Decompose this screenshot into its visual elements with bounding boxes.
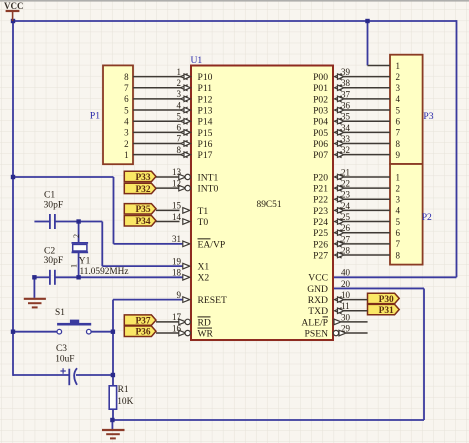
U1 pin 3 P12 [177, 89, 213, 105]
wire GND right vertical [423, 288, 425, 420]
wire P07 to P3 pin 9 [344, 154, 390, 156]
svg-text:11: 11 [341, 301, 350, 311]
junction S1 right on RESET net [111, 330, 115, 334]
svg-text:P06: P06 [313, 139, 328, 150]
svg-text:P01: P01 [313, 83, 328, 94]
svg-text:3: 3 [396, 83, 401, 93]
svg-text:2: 2 [124, 139, 129, 149]
svg-text:P16: P16 [198, 139, 213, 150]
wire crystal pin2 lead [78, 222, 80, 243]
svg-text:S1: S1 [55, 308, 65, 318]
wire P3 pin1 stub [368, 64, 391, 66]
wire S1 right [91, 331, 113, 333]
svg-text:ALE/P: ALE/P [301, 317, 328, 328]
svg-text:9: 9 [396, 150, 401, 160]
svg-text:37: 37 [341, 89, 351, 99]
svg-text:36: 36 [341, 100, 351, 110]
port P35 [124, 204, 156, 216]
wire C3 right [76, 374, 113, 376]
svg-text:P05: P05 [313, 128, 328, 139]
svg-text:P14: P14 [198, 117, 213, 128]
svg-text:PSEN: PSEN [305, 328, 329, 339]
wire P00 to P3 pin 2 [344, 76, 390, 78]
wire P23 to P2 pin 4 [344, 209, 390, 211]
svg-text:19: 19 [172, 256, 182, 266]
svg-text:P20: P20 [313, 172, 328, 183]
U1 pin 24 P23 [313, 201, 350, 217]
U1 pin 15 T1 [172, 201, 208, 217]
svg-text:32: 32 [341, 145, 350, 155]
wire P32 to INT0 [156, 187, 180, 189]
junction S1 left on VCC rail [11, 330, 15, 334]
svg-text:P13: P13 [198, 105, 213, 116]
svg-text:VCC: VCC [4, 1, 24, 11]
wire C1 to X1 net [55, 221, 102, 223]
svg-text:20: 20 [341, 279, 351, 289]
wire P03 to P3 pin 5 [344, 109, 390, 111]
svg-text:23: 23 [341, 190, 351, 200]
svg-text:P00: P00 [313, 72, 328, 83]
svg-text:P23: P23 [313, 206, 328, 217]
op U1 89C51 body [191, 66, 333, 341]
U1 pin 6 P15 [177, 123, 213, 139]
svg-text:1: 1 [69, 264, 78, 268]
svg-text:1: 1 [177, 67, 182, 77]
svg-text:8: 8 [396, 139, 401, 149]
wire to EA/VP pin 31 [114, 243, 184, 245]
svg-text:C3: C3 [56, 344, 67, 354]
svg-text:39: 39 [341, 67, 351, 77]
U1 pin 35 P04 [313, 112, 350, 128]
svg-text:28: 28 [341, 245, 351, 255]
svg-text:31: 31 [172, 234, 181, 244]
U1 pin 2 P11 [177, 78, 213, 94]
svg-text:12: 12 [172, 178, 181, 188]
U1 pin 19 X1 [172, 256, 209, 272]
U1 pin 21 P20 [313, 167, 350, 183]
wire P22 to P2 pin 3 [344, 198, 390, 200]
svg-text:P36: P36 [135, 328, 150, 338]
U1 pin 34 P05 [313, 123, 350, 139]
U1 pin 28 P27 [313, 245, 350, 261]
svg-text:21: 21 [341, 167, 350, 177]
wire GND bottom [112, 419, 424, 421]
svg-text:29: 29 [341, 323, 351, 333]
svg-text:P35: P35 [135, 205, 150, 215]
U1 pin 22 P21 [313, 179, 350, 195]
U1 pin 37 P02 [313, 89, 350, 105]
U1 pin 5 P14 [177, 111, 213, 127]
svg-text:2: 2 [396, 72, 401, 82]
svg-text:2: 2 [72, 234, 81, 238]
svg-text:6: 6 [396, 228, 401, 238]
svg-text:24: 24 [341, 201, 351, 211]
U1 pin 31 EA/VP [172, 234, 225, 250]
wire PSEN dangling [346, 332, 368, 334]
junction C2 to ground [32, 275, 36, 279]
wire P37 to RD [156, 321, 180, 323]
svg-text:RESET: RESET [198, 295, 227, 306]
svg-text:P37: P37 [135, 317, 150, 327]
ground symbol (bottom GND net) [102, 430, 125, 438]
svg-text:26: 26 [341, 223, 351, 233]
wire EA vertical [113, 177, 115, 244]
wire P02 to P3 pin 4 [344, 98, 390, 100]
svg-text:U1: U1 [191, 55, 203, 66]
top window edge strip [0, 0, 469, 2]
resistor R1 10K [109, 385, 133, 409]
ground symbol (C1/C2) [24, 299, 46, 308]
U1 pin 10 RXD [308, 290, 351, 306]
U1 pin 11 TXD [308, 301, 349, 317]
svg-text:4: 4 [396, 94, 401, 104]
wire ground drop C1 C2 [33, 277, 35, 298]
U1 pin 16 WR [172, 323, 214, 339]
wire P24 to P2 pin 5 [344, 221, 390, 223]
wire P27 to P2 pin 8 [344, 254, 390, 256]
svg-text:30pF: 30pF [44, 200, 64, 211]
switch S1 [55, 308, 91, 334]
svg-text:11.0592MHz: 11.0592MHz [80, 267, 129, 277]
U1 pin 40 VCC [308, 268, 350, 284]
port P34 [124, 216, 156, 228]
power port VCC [4, 1, 24, 21]
svg-text:P27: P27 [313, 250, 328, 261]
svg-text:27: 27 [341, 234, 351, 244]
junction C2 / Y1 pin1 / X2 node [76, 275, 80, 279]
wire P04 to P3 pin 6 [344, 120, 390, 122]
wire crystal pin1 lead [78, 252, 80, 277]
svg-text:8: 8 [124, 72, 129, 82]
wire TXD to P31 [344, 310, 368, 312]
wire RESET vertical [112, 300, 114, 386]
U1 pin 1 P10 [177, 67, 213, 83]
U1 pin 27 P26 [313, 234, 350, 250]
svg-text:35: 35 [341, 112, 351, 122]
svg-text:18: 18 [172, 268, 182, 278]
U1 pin 20 GND [307, 279, 350, 295]
svg-text:P30: P30 [379, 295, 394, 305]
svg-text:P17: P17 [198, 150, 213, 161]
svg-text:30: 30 [341, 312, 351, 322]
svg-text:3: 3 [396, 195, 401, 205]
svg-text:T0: T0 [198, 217, 209, 228]
svg-text:P04: P04 [313, 117, 328, 128]
svg-text:5: 5 [177, 111, 182, 121]
svg-text:Y1: Y1 [79, 257, 91, 267]
U1 pin 25 P24 [313, 212, 350, 228]
svg-text:22: 22 [341, 179, 350, 189]
wire VCC to U1 pin 40 [333, 276, 457, 278]
svg-text:2: 2 [177, 78, 182, 88]
wire RXD to P30 [344, 299, 368, 301]
wire C2 left lead [34, 276, 49, 278]
svg-text:P02: P02 [313, 94, 328, 105]
capacitor C2 30pF [44, 246, 64, 285]
wire VCC branch to EA [13, 176, 114, 178]
wire VCC right vertical [456, 20, 458, 277]
junction top rail to P3 pin1 [365, 19, 369, 23]
U1 pin 17 RD [172, 312, 211, 328]
wire C1 left lead [34, 221, 49, 223]
wire P21 to P2 pin 2 [344, 187, 390, 189]
wire GND from U1 pin 20 [333, 287, 424, 289]
wire VCC top rail [13, 20, 457, 22]
wire VCC drop to P3 pin1 [367, 21, 369, 65]
junction VCC top-left [11, 19, 15, 23]
svg-text:4: 4 [396, 206, 401, 216]
svg-text:33: 33 [341, 134, 351, 144]
junction VCC to EA branch [11, 175, 15, 179]
wire S1 left [13, 331, 57, 333]
svg-text:P12: P12 [198, 94, 213, 105]
svg-text:4: 4 [177, 100, 182, 110]
port P31 [368, 304, 400, 316]
svg-text:6: 6 [396, 117, 401, 127]
wire C2 to X2 pin 18 [55, 276, 183, 278]
connector P3 [390, 55, 423, 164]
U1 pin 18 X2 [172, 268, 209, 284]
svg-text:P21: P21 [313, 184, 328, 195]
svg-text:P24: P24 [313, 217, 328, 228]
wire P26 to P2 pin 7 [344, 243, 390, 245]
svg-text:1: 1 [396, 172, 401, 182]
svg-text:3: 3 [177, 89, 182, 99]
svg-text:R1: R1 [118, 385, 129, 395]
svg-text:WR: WR [198, 328, 214, 339]
junction C1 / Y1 pin2 / X1 node [76, 219, 80, 223]
svg-text:GND: GND [307, 284, 328, 295]
U1 pin 23 P22 [313, 190, 350, 206]
wire ALE dangling [341, 321, 368, 323]
svg-text:P34: P34 [135, 217, 150, 227]
wire P35 to T1 [156, 209, 180, 211]
U1 pin 26 P25 [313, 223, 350, 239]
port P36 [124, 326, 156, 338]
svg-text:1: 1 [124, 150, 129, 160]
svg-text:7: 7 [124, 83, 129, 93]
svg-text:P11: P11 [198, 83, 213, 94]
connector P1 [103, 65, 133, 164]
svg-text:5: 5 [396, 105, 401, 115]
U1 pin 8 P17 [177, 145, 213, 161]
svg-text:P15: P15 [198, 128, 213, 139]
svg-text:9: 9 [177, 290, 182, 300]
port P32 [124, 183, 156, 195]
svg-text:P33: P33 [135, 173, 150, 183]
svg-text:6: 6 [124, 94, 129, 104]
wire to RESET pin 9 [113, 299, 183, 301]
svg-text:30pF: 30pF [44, 255, 64, 266]
svg-text:15: 15 [172, 201, 182, 211]
U1 pin 30 ALE/P [301, 312, 350, 328]
capacitor C1 30pF [44, 190, 64, 230]
U1 pin 36 P03 [313, 100, 350, 116]
U1 pin 39 P00 [313, 67, 350, 83]
svg-text:25: 25 [341, 212, 351, 222]
svg-text:RD: RD [198, 317, 211, 328]
U1 pin 12 INT0 [172, 178, 218, 194]
svg-text:17: 17 [172, 312, 182, 322]
port P30 [368, 293, 400, 305]
svg-text:P03: P03 [313, 105, 328, 116]
U1 pin 7 P16 [177, 134, 213, 150]
U1 pin 29 PSEN [305, 323, 351, 339]
svg-text:P22: P22 [313, 195, 328, 206]
svg-text:P1: P1 [90, 111, 100, 122]
U1 pin 38 P01 [313, 78, 350, 94]
svg-text:3: 3 [124, 128, 129, 138]
svg-text:P2: P2 [422, 212, 432, 223]
svg-text:7: 7 [396, 239, 401, 249]
junction C3 right on RESET net [111, 373, 115, 377]
svg-text:10K: 10K [117, 397, 133, 407]
U1 pin 32 P07 [313, 145, 350, 161]
port P33 [124, 171, 156, 183]
U1 pin 13 INT1 [172, 167, 218, 183]
svg-text:2: 2 [396, 183, 401, 193]
svg-text:INT1: INT1 [198, 172, 219, 183]
svg-text:P3: P3 [423, 111, 433, 122]
svg-text:INT0: INT0 [198, 184, 219, 195]
wire ground lead bottom [111, 420, 113, 429]
wire P36 to WR [156, 332, 180, 334]
svg-text:5: 5 [396, 217, 401, 227]
U1 pin 9 RESET [177, 290, 227, 306]
svg-text:P10: P10 [198, 72, 213, 83]
wire P05 to P3 pin 7 [344, 131, 390, 133]
svg-text:4: 4 [124, 117, 129, 127]
svg-text:VCC: VCC [308, 273, 328, 284]
port P37 [124, 315, 156, 327]
svg-text:RXD: RXD [308, 295, 328, 306]
svg-text:P26: P26 [313, 239, 328, 250]
crystal Y1 11.0592MHz [69, 234, 128, 277]
svg-text:34: 34 [341, 123, 351, 133]
svg-text:7: 7 [396, 128, 401, 138]
svg-text:5: 5 [124, 105, 129, 115]
svg-text:P32: P32 [135, 185, 150, 195]
wire P20 to P2 pin 1 [344, 176, 390, 178]
U1 pin 33 P06 [313, 134, 350, 150]
wire X1 vertical [101, 222, 103, 267]
svg-text:10uF: 10uF [55, 354, 74, 364]
wire R1 bottom lead [112, 409, 114, 420]
wire C3 left [13, 374, 69, 376]
svg-text:8: 8 [177, 145, 182, 155]
svg-text:8: 8 [396, 250, 401, 260]
wire VCC left vertical [12, 21, 14, 376]
svg-text:89C51: 89C51 [257, 200, 282, 210]
wire P01 to P3 pin 3 [344, 87, 390, 89]
wire P06 to P3 pin 8 [344, 143, 390, 145]
wire P34 to T0 [156, 221, 180, 223]
U1 pin 4 P13 [177, 100, 213, 116]
wire P25 to P2 pin 6 [344, 232, 390, 234]
svg-text:EA/VP: EA/VP [198, 239, 226, 250]
svg-text:13: 13 [172, 167, 182, 177]
svg-text:7: 7 [177, 134, 182, 144]
U1 pin 14 T0 [172, 212, 208, 228]
svg-text:40: 40 [341, 268, 351, 278]
svg-text:16: 16 [172, 323, 182, 333]
svg-text:38: 38 [341, 78, 351, 88]
svg-text:1: 1 [396, 61, 401, 71]
svg-text:P31: P31 [379, 306, 394, 316]
svg-text:6: 6 [177, 123, 182, 133]
svg-text:X1: X1 [198, 262, 210, 273]
junction R1 bottom on GND net [110, 418, 114, 422]
wire P33 to INT1 [156, 176, 180, 178]
svg-text:TXD: TXD [308, 306, 328, 317]
svg-text:T1: T1 [198, 206, 209, 217]
wire to X1 pin 19 [102, 265, 183, 267]
connector P2 [390, 164, 423, 265]
svg-text:X2: X2 [198, 273, 210, 284]
svg-text:P07: P07 [313, 150, 328, 161]
svg-text:10: 10 [341, 290, 351, 300]
svg-text:14: 14 [172, 212, 182, 222]
capacitor C3 10uF polarized [55, 344, 77, 385]
svg-text:P25: P25 [313, 228, 328, 239]
